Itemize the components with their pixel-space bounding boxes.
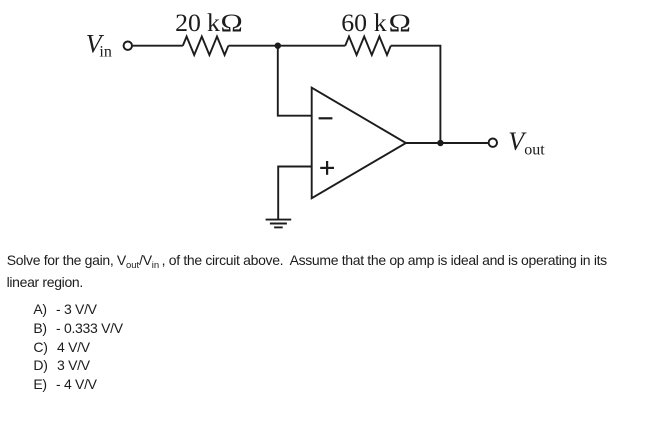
output terminal circle Vout <box>489 139 497 147</box>
wire R2 to output node (top right corner, down) <box>391 46 441 143</box>
op-amp plus sign <box>320 161 334 175</box>
wire node A down to inverting input <box>278 46 312 116</box>
svg-text:k: k <box>374 8 387 37</box>
label 20 kOhm <box>175 8 243 37</box>
wire noninverting input to ground <box>278 167 312 220</box>
input terminal circle Vin <box>124 42 132 50</box>
option E <box>33 377 46 391</box>
resistor R2 60k zigzag <box>345 37 391 56</box>
option C <box>33 340 47 354</box>
question text line 2 <box>7 275 83 289</box>
ground symbol <box>266 220 292 228</box>
wire R1 to R2 through node A <box>228 45 345 47</box>
label 60 kOhm <box>341 8 411 37</box>
resistor R1 20k zigzag <box>183 37 229 56</box>
option A <box>33 302 46 316</box>
op-amp U1 triangle <box>312 88 406 199</box>
option D <box>33 358 47 372</box>
label Vin <box>86 30 112 61</box>
wire op-amp output to Vout terminal <box>406 142 488 144</box>
svg-text:20: 20 <box>175 8 201 37</box>
junction node A <box>275 43 281 49</box>
option B <box>33 321 46 335</box>
svg-text:Ω: Ω <box>389 9 411 38</box>
svg-text:k: k <box>207 8 220 37</box>
svg-text:Ω: Ω <box>221 9 243 38</box>
op-amp minus sign <box>319 117 333 119</box>
junction node output <box>437 140 443 146</box>
wire Vin terminal to R1 <box>133 45 183 47</box>
svg-text:60: 60 <box>341 8 367 37</box>
label Vout <box>508 127 545 158</box>
svg-text:out: out <box>524 142 545 159</box>
svg-text:in: in <box>99 44 111 61</box>
question text line 1 <box>7 253 607 267</box>
